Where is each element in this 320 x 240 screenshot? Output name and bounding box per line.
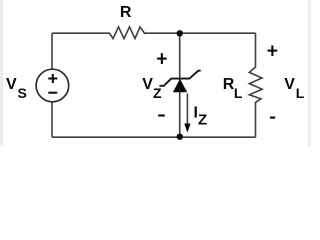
svg-text:R: R [120, 4, 132, 21]
